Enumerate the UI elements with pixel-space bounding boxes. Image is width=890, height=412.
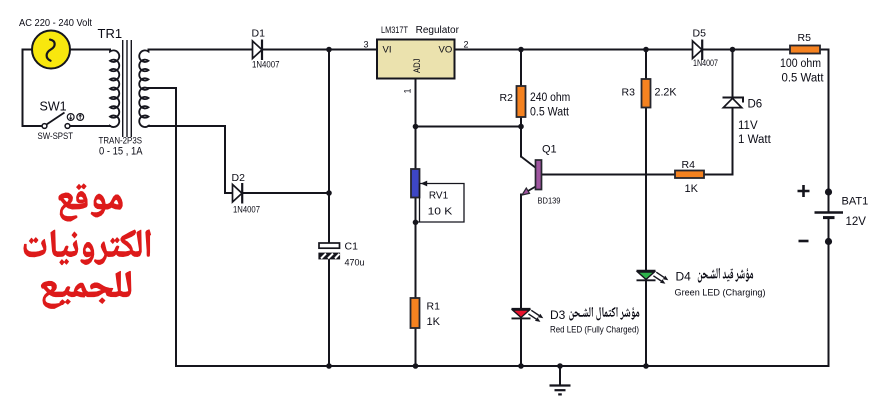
node BAT1 positive terminal	[825, 188, 832, 195]
label arabic D3 fully charged	[569, 307, 639, 321]
svg-text:LM317T: LM317T	[381, 25, 408, 35]
wire R3 top	[645, 50, 647, 80]
svg-text:TRAN-2P3S: TRAN-2P3S	[99, 136, 143, 146]
wire switch right to primary bottom	[70, 125, 110, 127]
wire D4 to bottom rail	[645, 281, 647, 367]
wire D6 bottom to R4	[704, 108, 733, 175]
wire VO to D5 anode	[455, 49, 693, 51]
wire R5 to right rail corner	[820, 50, 829, 213]
wire D2 cathode to node	[243, 192, 330, 194]
svg-text:12V: 12V	[846, 216, 867, 228]
junction VO rail / R2 top	[518, 47, 524, 53]
led D4 green	[637, 271, 669, 284]
junction bottom rail / ground	[557, 363, 563, 369]
svg-text:R3: R3	[622, 87, 636, 99]
junction bottom rail / D3	[518, 363, 524, 369]
svg-text:3: 3	[364, 40, 369, 50]
svg-text:AC 220 - 240 Volt: AC 220 - 240 Volt	[19, 18, 92, 29]
svg-text:Q1: Q1	[542, 144, 557, 156]
svg-text:BD139: BD139	[538, 196, 561, 206]
junction D5 cathode / D6 top	[730, 47, 736, 53]
AC source V1	[32, 31, 70, 69]
diode D5	[693, 40, 703, 61]
node BAT1 negative terminal	[825, 238, 832, 245]
wire bottom rail	[176, 365, 829, 367]
svg-text:1K: 1K	[685, 183, 699, 195]
wire ADJ node to R2 bottom node	[416, 126, 522, 128]
svg-text:Red LED (Fully Charged): Red LED (Fully Charged)	[550, 324, 639, 334]
junction VO rail / R3 top	[643, 47, 649, 53]
potentiometer RV1	[411, 169, 464, 222]
svg-text:470u: 470u	[345, 258, 365, 268]
svg-text:1K: 1K	[427, 316, 441, 328]
resistor R5 horizontal	[790, 46, 820, 54]
svg-text:2.2K: 2.2K	[655, 87, 678, 99]
junction bottom rail / R1	[413, 363, 419, 369]
wire center tap down	[149, 88, 177, 366]
diode D1	[253, 40, 263, 61]
wire D1 cathode to LM317 VI	[262, 49, 377, 51]
wire C1 rail lower	[328, 259, 330, 366]
diode D2	[233, 183, 243, 204]
wire R3 bottom to D4	[645, 108, 647, 271]
svg-text:D5: D5	[693, 28, 707, 40]
svg-text:BAT1: BAT1	[842, 196, 869, 208]
svg-text:1N4007: 1N4007	[233, 205, 260, 215]
wire ADJ down	[415, 79, 417, 170]
wire Q1 base to R4	[542, 174, 676, 176]
transformer TR1 primary coil	[110, 50, 119, 128]
svg-text:C1: C1	[345, 241, 359, 253]
svg-text:Regulator: Regulator	[416, 25, 460, 36]
svg-text:D6: D6	[748, 99, 763, 111]
svg-text:VI: VI	[383, 44, 392, 55]
svg-text:1N4007: 1N4007	[693, 58, 718, 68]
svg-text:Green LED (Charging): Green LED (Charging)	[675, 287, 766, 298]
junction R2 bottom / Q1 collector node	[518, 124, 524, 130]
wire AC right to primary	[70, 49, 110, 51]
svg-text:0.5 Watt: 0.5 Watt	[782, 73, 825, 85]
resistor R2	[517, 86, 526, 117]
svg-text:D4: D4	[676, 269, 692, 283]
battery BAT1	[798, 185, 844, 241]
svg-text:240 ohm: 240 ohm	[530, 92, 570, 104]
svg-text:SW-SPST: SW-SPST	[38, 131, 74, 142]
wire C1 rail upper	[328, 50, 330, 244]
svg-text:D3: D3	[550, 308, 566, 322]
svg-text:D2: D2	[232, 172, 246, 184]
junction bottom rail / D4	[643, 363, 649, 369]
svg-text:VO: VO	[439, 44, 453, 55]
ground	[550, 366, 571, 394]
svg-text:1N4007: 1N4007	[252, 60, 280, 70]
svg-text:0 - 15 , 1A: 0 - 15 , 1A	[99, 146, 143, 158]
svg-text:1 Watt: 1 Watt	[738, 134, 772, 146]
wire R2 bottom to node	[520, 117, 522, 157]
wire R2 top	[520, 50, 522, 87]
junction D1 cathode / C1 rail top	[326, 47, 332, 53]
svg-text:R2: R2	[500, 92, 514, 104]
svg-text:10 K: 10 K	[428, 207, 453, 218]
transformer TR1 core	[123, 40, 132, 137]
svg-text:1: 1	[403, 88, 413, 93]
wire battery minus down to bottom rail	[828, 218, 830, 367]
led D3 red	[512, 309, 544, 322]
regulator U1 LM317T box	[377, 40, 455, 79]
svg-text:D1: D1	[252, 27, 266, 39]
svg-text:R4: R4	[682, 159, 696, 171]
resistor R1	[411, 298, 420, 328]
svg-text:ADJ: ADJ	[412, 58, 423, 73]
wire R1 bottom	[415, 328, 417, 366]
svg-text:R1: R1	[427, 301, 441, 313]
wire D5 cathode to R5	[704, 49, 791, 51]
svg-text:2: 2	[464, 40, 469, 50]
svg-text:0.5 Watt: 0.5 Watt	[530, 107, 570, 119]
wire D3 to bottom rail	[520, 319, 522, 367]
junction bottom rail / C1	[326, 363, 332, 369]
svg-text:11V: 11V	[738, 120, 758, 132]
capacitor C1	[319, 243, 340, 259]
transformer TR1 secondary coil	[139, 50, 148, 128]
transistor Q1	[521, 157, 542, 196]
wire RV1 to R1	[415, 198, 417, 299]
wire Q1 emitter rail down to D3	[520, 195, 522, 309]
svg-text:SW1: SW1	[40, 99, 67, 113]
svg-text:R5: R5	[798, 32, 812, 44]
watermark red arabic text	[24, 184, 151, 309]
svg-text:100 ohm: 100 ohm	[780, 58, 821, 70]
wire top rail left: AC to transformer	[23, 50, 43, 127]
svg-text:TR1: TR1	[98, 26, 123, 41]
wire secondary bottom to D2	[149, 126, 233, 193]
junction ADJ node	[413, 124, 419, 130]
wire D6 top	[732, 50, 734, 98]
junction D2 cathode / C1 rail	[326, 190, 332, 196]
zener D6	[723, 98, 744, 108]
resistor R3	[642, 79, 651, 108]
svg-text:RV1: RV1	[429, 191, 449, 202]
junction RV1 wiper return	[413, 220, 419, 226]
switch SW1	[42, 113, 84, 129]
label arabic D4 charging	[698, 268, 753, 283]
wire secondary top to D1 anode	[149, 49, 253, 51]
resistor R4 horizontal	[675, 171, 704, 179]
